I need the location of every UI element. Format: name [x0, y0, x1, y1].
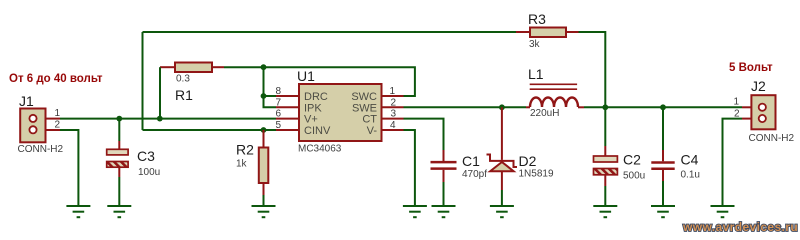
svg-text:500u: 500u	[623, 171, 645, 182]
capacitor C1	[431, 150, 488, 206]
svg-text:J2: J2	[751, 78, 766, 94]
svg-text:CT: CT	[362, 114, 377, 126]
svg-text:C1: C1	[462, 153, 480, 169]
inductor L1	[526, 66, 584, 119]
svg-text:J1: J1	[19, 93, 34, 109]
svg-text:0.1u: 0.1u	[681, 170, 700, 181]
wire feedback vertical left	[142, 32, 144, 130]
ground pin4	[403, 206, 427, 217]
wire feedback to CINV	[143, 129, 277, 131]
svg-text:5 Вольт: 5 Вольт	[729, 62, 773, 74]
wire L1 to output node	[584, 106, 742, 108]
svg-text:U1: U1	[297, 68, 315, 84]
node pin8 junction	[261, 93, 267, 99]
connector J2	[734, 78, 795, 144]
svg-text:470pf: 470pf	[462, 169, 487, 180]
wire J2 pin2 to ground	[723, 119, 743, 206]
svg-text:4: 4	[390, 120, 396, 131]
svg-text:5: 5	[275, 120, 281, 131]
svg-text:7: 7	[275, 97, 281, 108]
watermark www.avrdevices.ru	[682, 220, 798, 234]
svg-text:R1: R1	[175, 87, 193, 103]
ground J1	[66, 206, 90, 217]
svg-text:3: 3	[391, 109, 397, 120]
capacitor C4	[651, 107, 700, 205]
node D2 junction	[499, 104, 505, 110]
ground D2	[490, 206, 514, 217]
wire pin3 CT to C1	[404, 119, 444, 150]
ground C1	[432, 206, 456, 217]
svg-text:2: 2	[391, 97, 397, 108]
svg-text:1N5819: 1N5819	[519, 169, 554, 180]
node R1 right junction	[261, 64, 267, 70]
wire V+ rail J1 pin1 to U1 pin6	[60, 118, 276, 120]
op-amp / IC U1 MC34063	[275, 68, 403, 155]
svg-text:3k: 3k	[529, 39, 541, 50]
svg-text:C3: C3	[137, 148, 155, 164]
wire R1 left down to V+ rail	[159, 67, 161, 118]
svg-text:220uH: 220uH	[530, 108, 559, 119]
ground C4	[651, 206, 675, 217]
svg-text:2: 2	[55, 120, 61, 131]
svg-text:R2: R2	[236, 142, 254, 158]
wire pin8 branch	[264, 95, 277, 97]
pin stubs right	[382, 95, 404, 97]
svg-text:V+: V+	[304, 114, 318, 126]
wire R1 right over U1 to pin1 SWC	[224, 67, 415, 96]
wire J1 pin2 to ground	[60, 130, 78, 206]
svg-text:CONN-H2: CONN-H2	[749, 133, 795, 144]
svg-text:8: 8	[275, 86, 281, 97]
svg-text:SWE: SWE	[352, 102, 377, 114]
svg-text:1: 1	[390, 86, 396, 97]
ground R2	[252, 206, 276, 217]
wire feedback top: node to R3 left	[143, 31, 517, 33]
svg-text:C2: C2	[623, 152, 641, 168]
svg-text:CINV: CINV	[304, 125, 331, 137]
svg-text:MC34063: MC34063	[298, 144, 342, 155]
svg-text:100u: 100u	[138, 167, 160, 178]
resistor R1	[160, 63, 224, 104]
svg-text:1: 1	[734, 97, 740, 108]
capacitor C3	[107, 119, 161, 206]
svg-text:L1: L1	[528, 66, 544, 82]
svg-text:1k: 1k	[236, 159, 248, 170]
svg-text:D2: D2	[519, 153, 537, 169]
svg-text:0.3: 0.3	[176, 74, 190, 85]
connector J1	[18, 93, 64, 155]
svg-text:CONN-H2: CONN-H2	[18, 144, 64, 155]
svg-text:R3: R3	[528, 11, 546, 27]
node R1 left junction	[157, 116, 163, 122]
wire pin4 V- to ground	[404, 130, 415, 206]
node C4 junction	[660, 104, 666, 110]
svg-text:DRC: DRC	[304, 91, 328, 103]
capacitor C2	[594, 107, 646, 205]
ground J2	[711, 206, 735, 217]
resistor R2	[236, 130, 268, 206]
pin stubs left	[276, 95, 299, 97]
svg-text:C4: C4	[681, 152, 699, 168]
svg-text:От 6 до 40 вольт: От 6 до 40 вольт	[9, 73, 103, 85]
svg-text:V-: V-	[367, 125, 378, 137]
wire R3 right to output node	[579, 32, 606, 107]
diode D2 schottky	[487, 107, 554, 205]
svg-text:1: 1	[55, 108, 61, 119]
ground C2	[593, 206, 617, 217]
svg-text:6: 6	[275, 109, 281, 120]
svg-text:SWC: SWC	[351, 91, 377, 103]
svg-text:www.avrdevices.ru: www.avrdevices.ru	[682, 220, 798, 234]
wire branch to pins 8 and 7	[264, 67, 277, 107]
ground C3	[107, 206, 131, 217]
node C2 junction	[602, 104, 608, 110]
wire pin2 SWE to L1	[404, 106, 527, 108]
resistor R3	[516, 11, 579, 50]
node CINV junction	[261, 127, 267, 133]
node C3 junction	[116, 116, 122, 122]
svg-text:IPK: IPK	[304, 102, 322, 114]
